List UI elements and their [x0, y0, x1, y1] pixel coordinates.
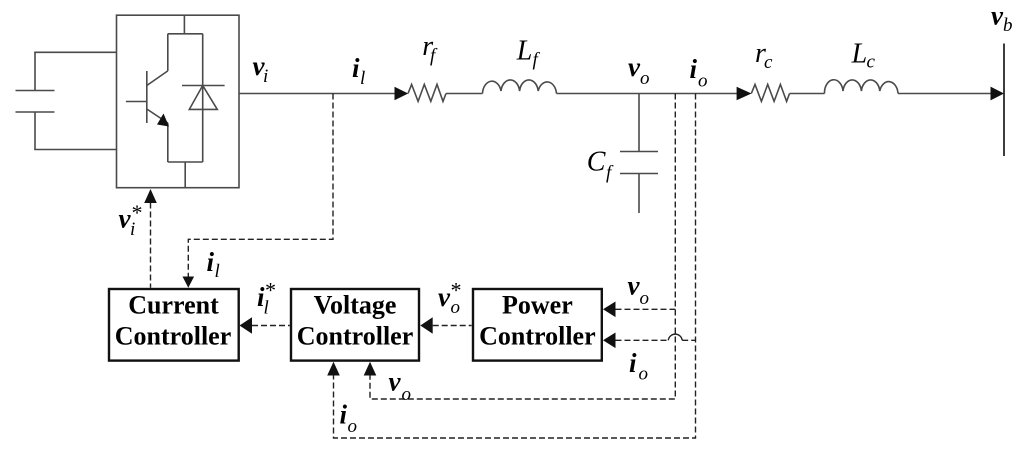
svg-text:i: i	[352, 53, 360, 83]
svg-text:o: o	[639, 364, 649, 385]
svg-text:o: o	[640, 68, 650, 89]
svg-text:Current: Current	[128, 290, 219, 319]
svg-text:o: o	[402, 384, 412, 405]
svg-text:Controller: Controller	[297, 321, 414, 350]
svg-text:L: L	[851, 38, 868, 69]
svg-text:C: C	[587, 147, 606, 178]
svg-text:i: i	[690, 54, 698, 84]
svg-text:l: l	[360, 68, 365, 89]
svg-text:c: c	[764, 52, 773, 73]
svg-text:*: *	[264, 278, 275, 303]
svg-text:l: l	[215, 261, 220, 282]
svg-text:*: *	[450, 278, 461, 303]
svg-text:L: L	[516, 36, 533, 67]
svg-text:o: o	[698, 71, 708, 92]
svg-text:i: i	[207, 247, 215, 277]
svg-text:o: o	[348, 416, 358, 437]
svg-text:Voltage: Voltage	[314, 290, 397, 319]
svg-text:Power: Power	[502, 290, 573, 319]
svg-text:Controller: Controller	[115, 321, 232, 350]
svg-text:Controller: Controller	[479, 321, 596, 350]
svg-text:i: i	[340, 400, 348, 430]
svg-text:i: i	[629, 348, 637, 378]
svg-text:*: *	[131, 200, 142, 225]
svg-text:c: c	[867, 52, 876, 73]
svg-text:b: b	[1003, 15, 1013, 36]
svg-text:i: i	[263, 66, 268, 87]
svg-text:o: o	[640, 288, 650, 309]
svg-text:v: v	[389, 367, 402, 397]
